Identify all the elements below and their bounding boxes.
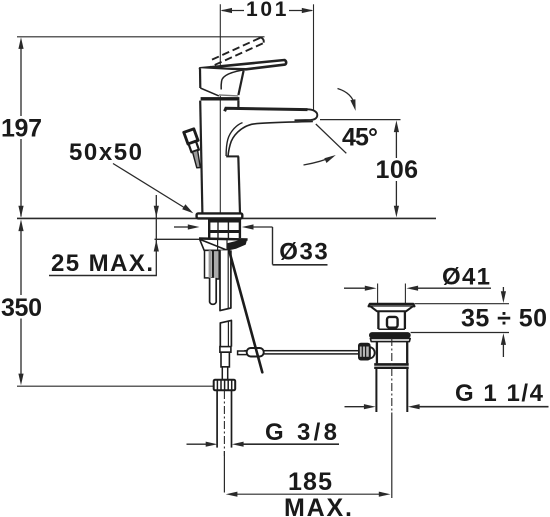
faucet spout — [225, 108, 318, 156]
svg-text:35 ÷ 50: 35 ÷ 50 — [461, 305, 547, 333]
svg-text:101: 101 — [246, 0, 287, 21]
knurled adjuster knob on drain — [359, 344, 375, 360]
hose end fitting sections — [220, 347, 231, 380]
svg-text:MAX.: MAX. — [284, 494, 352, 517]
faucet collar dark band — [201, 97, 240, 100]
dim 350 vertical dimension — [1, 219, 42, 385]
label 50x50 with leader arrow to base plate — [69, 139, 193, 214]
flexible hose upper segment with break — [220, 250, 231, 346]
arc arrow lower — [304, 155, 336, 165]
dim 25 MAX. counter thickness dimension — [49, 195, 159, 277]
faucet lever handle dashed (raised 45 position) — [210, 37, 264, 66]
svg-text:25 MAX.: 25 MAX. — [51, 250, 153, 277]
faucet pop-up lift knob at back — [184, 129, 201, 168]
45 degree angled line — [316, 124, 347, 153]
counter top line — [17, 217, 436, 219]
dim 197 vertical dimension — [1, 37, 42, 217]
threaded mounting rods — [205, 250, 220, 304]
arc arrow upper — [338, 89, 356, 111]
pop-up transmission diagonal rod — [229, 251, 262, 372]
drain flange dark disk — [369, 332, 411, 342]
counter bottom line — [155, 238, 201, 240]
350 bottom reference line — [17, 385, 214, 387]
svg-text:50x50: 50x50 — [69, 139, 142, 166]
extension line right of 101 (to spout tip) — [313, 4, 315, 110]
197 top reference line — [17, 36, 265, 38]
dim 35/50 reference lines and arrows — [411, 287, 547, 357]
svg-text:45°: 45° — [342, 124, 378, 152]
drain body below flange — [377, 342, 407, 364]
G3/8 knurled nut — [214, 380, 236, 391]
threaded shank below counter — [208, 219, 240, 238]
drain tailpipe — [376, 369, 407, 412]
dim G 3/8 dimension — [187, 419, 340, 447]
extension line left of 101 / faucet centerline — [219, 4, 221, 218]
svg-text:G 1 1/4: G 1 1/4 — [455, 380, 544, 407]
dim O41 extension lines — [378, 284, 406, 304]
drain body cup with window — [378, 311, 405, 329]
dim 106 vertical dimension — [376, 120, 419, 217]
faucet head body — [200, 68, 248, 96]
drain coupling nut bands — [374, 364, 409, 367]
drain pop-up waste funnel top — [369, 304, 415, 311]
dim 101 top dimension line with arrows — [220, 0, 313, 21]
svg-text:197: 197 — [1, 114, 42, 142]
dim G 1 1/4 dimension — [345, 380, 549, 409]
faucet lever handle solid (horizontal position) — [200, 60, 286, 69]
linkage horizontal rod — [238, 348, 359, 357]
svg-text:Ø33: Ø33 — [279, 239, 328, 266]
45 degree reference line at spout tip — [320, 119, 401, 121]
svg-text:Ø41: Ø41 — [442, 263, 490, 290]
svg-text:350: 350 — [1, 294, 42, 322]
dim O33 arrows and leader — [174, 224, 328, 265]
svg-text:185: 185 — [288, 468, 332, 496]
svg-text:G 3/8: G 3/8 — [265, 419, 337, 446]
drain centerline dash-dot — [391, 338, 393, 412]
svg-text:106: 106 — [376, 156, 419, 184]
G3/8 connection pipe — [217, 390, 231, 456]
pop-up rod bracket under shank — [199, 239, 248, 251]
faucet column body — [200, 101, 240, 214]
dim 185 MAX. bottom dimension — [224, 413, 391, 517]
dim O41 dimension line with arrows — [344, 263, 491, 291]
faucet base plate on counter — [197, 213, 243, 218]
